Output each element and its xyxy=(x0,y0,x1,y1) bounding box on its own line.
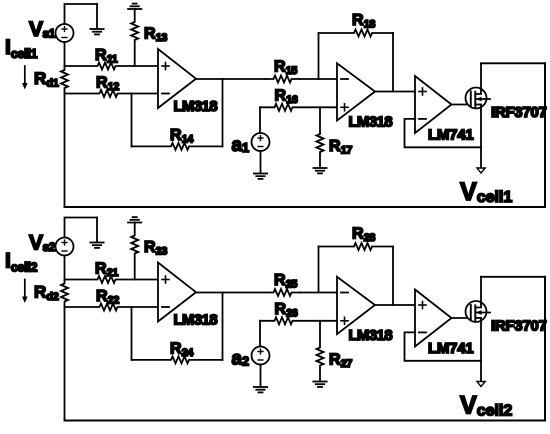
transistor Q1 IRF3707 (NMOS) xyxy=(466,63,491,108)
wire: V_s2 to node xyxy=(64,256,66,280)
wire: right rail xyxy=(544,63,546,207)
svg-text:Rd1: Rd1 xyxy=(34,69,59,90)
resistor R25 xyxy=(266,289,300,296)
wire: to U12 inverting input xyxy=(300,78,337,80)
wire: U22 output to U23 xyxy=(375,304,415,306)
svg-text:R24: R24 xyxy=(170,341,194,360)
op-amp U23 LM741 xyxy=(415,290,452,347)
wire: R28 right riser xyxy=(392,247,394,306)
wire: bottom rail xyxy=(65,206,546,208)
svg-text:R14: R14 xyxy=(170,127,194,146)
wire: U12 output to U13 xyxy=(375,91,415,93)
wire: source down to V_cell1 terminal xyxy=(480,105,482,169)
voltage source a1 xyxy=(252,133,270,151)
current arrow I_cell2 xyxy=(22,280,28,304)
wire: U11 output xyxy=(196,78,266,80)
resistor R15 xyxy=(266,76,300,83)
svg-text:LM318: LM318 xyxy=(349,115,393,131)
wire: U21 output xyxy=(196,292,266,294)
wire: left rail xyxy=(64,94,66,208)
svg-text:R12: R12 xyxy=(96,75,119,94)
op-amp U21 LM318 xyxy=(158,263,196,322)
ground (below R27) xyxy=(313,382,326,387)
svg-text:Vs1: Vs1 xyxy=(29,18,56,41)
resistor R16 xyxy=(260,104,337,111)
svg-text:LM741: LM741 xyxy=(428,128,474,144)
svg-text:R17: R17 xyxy=(329,138,352,157)
wire: right rail xyxy=(544,277,546,421)
svg-text:R26: R26 xyxy=(275,301,298,320)
resistor R28 xyxy=(319,243,394,250)
resistor R17 xyxy=(317,107,324,167)
svg-text:R22: R22 xyxy=(96,288,119,307)
wire: R28 left riser xyxy=(318,247,320,293)
wire: bottom rail xyxy=(65,420,546,422)
wire: left rail xyxy=(64,307,66,421)
ground (top left, next to V_s2) xyxy=(90,218,103,248)
terminal arrow V_cell1 xyxy=(477,168,485,173)
svg-text:R25: R25 xyxy=(274,272,297,291)
svg-text:R28: R28 xyxy=(352,226,375,245)
wire: LM741 feedback xyxy=(405,119,482,147)
svg-text:R21: R21 xyxy=(95,261,118,280)
svg-text:IRF3707: IRF3707 xyxy=(491,105,547,121)
transistor Q2 IRF3707 (NMOS) xyxy=(466,277,491,322)
voltage source a2 xyxy=(252,347,270,365)
resistor R_d2 xyxy=(61,280,68,308)
resistor R_d1 xyxy=(61,66,68,94)
svg-text:R23: R23 xyxy=(144,239,167,258)
ground (inverted, above R13) xyxy=(128,4,141,9)
wire: V_s2 top loop stem xyxy=(65,218,98,238)
resistor R23 xyxy=(131,223,138,280)
svg-text:Vcell1: Vcell1 xyxy=(460,178,512,206)
svg-text:IRF3707: IRF3707 xyxy=(491,319,547,335)
wire: LM741 output to gate xyxy=(452,317,472,319)
svg-text:Vcell2: Vcell2 xyxy=(460,392,512,420)
svg-text:Vs2: Vs2 xyxy=(29,232,56,255)
resistor R27 xyxy=(317,321,324,381)
wire: LM741 feedback xyxy=(405,332,482,360)
wire: R24 right riser to output xyxy=(222,293,224,360)
wire: drain to right rail xyxy=(481,62,545,64)
resistor R11 xyxy=(65,63,159,70)
wire: V_s1 to node xyxy=(64,42,66,66)
wire: R18 right riser xyxy=(392,33,394,92)
svg-text:LM318: LM318 xyxy=(174,99,218,115)
svg-text:LM318: LM318 xyxy=(349,328,393,344)
ground (below a1) xyxy=(254,151,267,179)
terminal arrow V_cell2 xyxy=(477,382,485,387)
svg-text:LM741: LM741 xyxy=(428,341,474,357)
wire: R24 left riser xyxy=(131,307,133,360)
current arrow I_cell1 xyxy=(22,66,28,90)
voltage source V_s2 xyxy=(56,238,74,256)
resistor R12 xyxy=(65,90,159,97)
wire: a2 riser xyxy=(259,321,261,347)
op-amp U13 LM741 xyxy=(415,76,452,133)
wire: R18 left riser xyxy=(318,33,320,79)
svg-text:R13: R13 xyxy=(144,26,167,45)
wire: a1 riser xyxy=(259,107,261,133)
svg-text:R15: R15 xyxy=(274,59,297,78)
svg-text:a1: a1 xyxy=(232,135,250,156)
resistor R26 xyxy=(260,317,337,324)
wire: R14 left riser xyxy=(131,94,133,147)
svg-text:LM318: LM318 xyxy=(174,313,218,329)
svg-text:R18: R18 xyxy=(352,12,375,31)
resistor R22 xyxy=(65,304,159,311)
ground (below R17) xyxy=(313,168,326,173)
resistor R24 xyxy=(132,356,223,363)
op-amp U22 LM318 xyxy=(337,277,375,334)
ground (inverted, above R23) xyxy=(128,217,141,222)
wire: source down to V_cell2 terminal xyxy=(480,318,482,382)
resistor R14 xyxy=(132,143,223,150)
svg-text:R11: R11 xyxy=(95,47,118,66)
resistor R13 xyxy=(131,9,138,66)
svg-text:Rd2: Rd2 xyxy=(34,283,59,304)
ground (top left, next to V_s1) xyxy=(90,4,103,34)
op-amp U12 LM318 xyxy=(337,63,375,120)
wire: LM741 output to gate xyxy=(452,104,472,106)
svg-text:R27: R27 xyxy=(329,352,352,371)
wire: to U22 inverting input xyxy=(300,292,337,294)
wire: V_s1 top loop stem xyxy=(65,4,98,24)
wire: R14 right riser to output xyxy=(222,79,224,146)
svg-text:R16: R16 xyxy=(275,88,298,107)
wire: drain to right rail xyxy=(481,276,545,278)
voltage source V_s1 xyxy=(56,24,74,42)
ground (below a2) xyxy=(254,365,267,393)
svg-text:a2: a2 xyxy=(232,349,250,370)
resistor R18 xyxy=(319,30,394,37)
resistor R21 xyxy=(65,276,159,283)
op-amp U11 LM318 xyxy=(158,49,196,108)
